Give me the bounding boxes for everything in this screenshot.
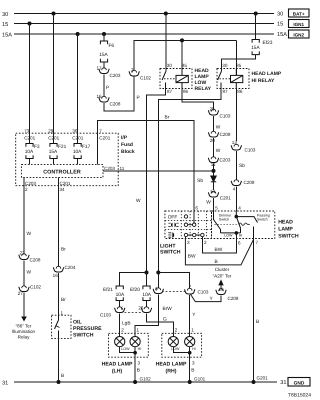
svg-text:HEAD LAMP: HEAD LAMP — [252, 71, 282, 77]
wire RH lamp commons — [173, 347, 189, 353]
svg-text:85: 85 — [236, 63, 242, 68]
wire bus30 to fuse Ef23 — [255, 14, 257, 40]
svg-text:G201: G201 — [257, 376, 269, 381]
ground G201 — [252, 380, 256, 384]
light switch inner grid — [165, 211, 212, 239]
svg-text:LOW: LOW — [121, 347, 130, 351]
junction Sb node — [212, 169, 216, 173]
wire pin7 to ground G201 — [253, 239, 255, 383]
svg-text:CONTROLLER: CONTROLLER — [43, 169, 81, 175]
wire to Sb junction — [213, 164, 215, 171]
svg-text:“A20” Ter: “A20” Ter — [213, 274, 232, 279]
svg-text:C102: C102 — [30, 285, 41, 290]
light switch head row contacts — [186, 234, 202, 236]
svg-text:C208: C208 — [110, 102, 121, 107]
wire W segment — [213, 116, 215, 131]
svg-text:BrW: BrW — [163, 306, 173, 312]
junction RH lamp common — [188, 351, 192, 355]
wire hi relay 86 down — [235, 89, 237, 142]
svg-text:W: W — [216, 125, 221, 131]
wire F6 to C203 pin17 — [103, 62, 105, 69]
wire Sb to diode — [213, 171, 215, 176]
svg-text:3: 3 — [192, 361, 195, 366]
connector C103 pin25 — [208, 109, 218, 115]
dashed connector link C103 pin5-pin26 — [125, 312, 143, 314]
dimmer switch blade — [214, 211, 221, 233]
junction passing switch pin4 — [235, 215, 239, 219]
svg-text:2: 2 — [175, 327, 178, 332]
svg-text:C102: C102 — [140, 76, 151, 81]
svg-text:27: 27 — [18, 291, 24, 296]
svg-text:W: W — [27, 270, 32, 276]
light switch parking row contacts — [186, 224, 194, 226]
ground G101 — [188, 380, 192, 384]
svg-text:C201: C201 — [72, 135, 83, 140]
fuse F17 10A — [73, 144, 91, 159]
svg-text:OIL: OIL — [73, 320, 82, 326]
connector C203 pin11b — [208, 157, 218, 163]
svg-text:P: P — [106, 85, 109, 91]
light switch parking row icon — [168, 223, 178, 228]
svg-text:Block: Block — [121, 149, 135, 155]
wire F17 to controller — [77, 159, 79, 165]
wire G to RH lamp low — [147, 314, 174, 334]
connector C201 pin51 — [208, 191, 218, 197]
svg-text:11: 11 — [120, 166, 125, 171]
svg-text:T6B15024: T6B15024 — [288, 393, 311, 399]
svg-text:C201: C201 — [99, 135, 110, 140]
svg-text:29: 29 — [48, 128, 54, 133]
svg-text:30: 30 — [277, 12, 283, 18]
dashed connector link C103 pin6-pin7 — [162, 291, 186, 293]
junction bus15A to F17 — [76, 32, 80, 36]
wire bus30 to fuse F21 — [53, 14, 55, 144]
svg-text:G: G — [163, 316, 167, 322]
svg-text:C203: C203 — [220, 158, 231, 163]
svg-text:C208: C208 — [228, 296, 239, 301]
connector C208 pin19 — [216, 289, 226, 295]
oil pressure switch contact — [55, 315, 60, 338]
svg-text:15A: 15A — [2, 33, 12, 39]
ground junction oil switch — [57, 380, 61, 384]
svg-text:6: 6 — [195, 206, 198, 211]
junction bus15 to F3 — [28, 22, 32, 26]
svg-text:1: 1 — [137, 327, 140, 332]
junction bus30 to F21 — [52, 12, 56, 16]
svg-text:20: 20 — [210, 138, 216, 143]
svg-text:P: P — [137, 95, 140, 101]
wire Br to oil pressure switch — [58, 273, 60, 315]
wire BrW to LH lamp hi — [135, 295, 158, 334]
wire W to Ef21 — [120, 273, 147, 287]
wire BW loop pin2 to pin6 — [202, 239, 236, 253]
svg-text:IGN2: IGN2 — [293, 33, 304, 38]
wire hi feed to C103 pin6 — [157, 273, 159, 288]
svg-text:C208: C208 — [30, 258, 41, 263]
svg-text:C201: C201 — [24, 135, 35, 140]
svg-text:2: 2 — [121, 327, 124, 332]
svg-text:86: 86 — [183, 89, 189, 94]
svg-text:30: 30 — [167, 63, 173, 68]
svg-text:31: 31 — [2, 381, 8, 387]
terminal box BAT+ — [289, 9, 310, 17]
svg-text:SWITCH: SWITCH — [278, 233, 299, 239]
junction dimmer low to pin6 — [235, 231, 239, 235]
svg-text:BW: BW — [215, 247, 223, 253]
wire F21 to controller — [53, 159, 55, 165]
svg-text:F21: F21 — [58, 144, 67, 150]
svg-text:86: 86 — [237, 89, 243, 94]
svg-text:LgB: LgB — [122, 321, 131, 327]
svg-text:Br: Br — [165, 115, 170, 121]
svg-text:F6: F6 — [109, 43, 115, 49]
svg-text:Sb: Sb — [197, 178, 203, 184]
junction bus15A to F6 — [102, 32, 106, 36]
svg-text:“86” Ter: “86” Ter — [16, 324, 32, 329]
svg-text:B: B — [256, 319, 259, 325]
svg-text:3: 3 — [187, 240, 190, 245]
wire W controller pin2 down — [23, 177, 25, 253]
svg-text:4: 4 — [233, 187, 236, 192]
svg-text:F3: F3 — [34, 144, 40, 150]
terminal box IGN1 — [289, 20, 310, 28]
junction bus30 to Ef23 — [254, 12, 258, 16]
wire pin6 into switch — [193, 211, 195, 223]
svg-text:10A: 10A — [73, 149, 82, 155]
wire Br: I/P pin7 C201 to light switch pin6 — [98, 121, 195, 212]
svg-text:15: 15 — [277, 22, 283, 28]
svg-text:87: 87 — [167, 89, 173, 94]
svg-text:34: 34 — [60, 187, 66, 192]
connector C103 pin26 — [141, 307, 151, 313]
svg-text:W: W — [136, 198, 141, 204]
fuse F21 15A — [49, 144, 67, 159]
connector C208 pin22 — [19, 254, 29, 260]
fuse Ef21 10A — [103, 286, 125, 301]
svg-text:Fusd: Fusd — [121, 142, 133, 148]
svg-text:Ef20: Ef20 — [130, 287, 140, 293]
svg-text:HI: HI — [192, 347, 196, 351]
wire low relay 87 down (W) — [147, 87, 166, 273]
svg-text:HEAD LAMP: HEAD LAMP — [156, 362, 187, 368]
wire controller pin11 C203 to Sb node — [103, 170, 214, 172]
connector C103 pin5 — [115, 307, 125, 313]
connector C208 pin20 — [208, 131, 218, 137]
wire low relay 86 to C103 pin25 — [182, 89, 214, 110]
wire Y cluster branch — [190, 294, 221, 302]
svg-text:C203: C203 — [110, 73, 121, 78]
light switch box — [165, 211, 212, 239]
head lamp switch box — [212, 211, 275, 239]
svg-text:15A: 15A — [99, 52, 108, 58]
wire Br controller pin34 down — [58, 177, 60, 266]
svg-text:I/P: I/P — [121, 135, 128, 141]
svg-text:C203: C203 — [104, 166, 115, 171]
svg-text:C103: C103 — [220, 114, 231, 119]
svg-text:5: 5 — [215, 206, 218, 211]
wire diode to C201 pin51 — [213, 182, 215, 190]
wire contact to pin2 stub — [201, 237, 203, 239]
junction LH lamp common — [133, 351, 137, 355]
svg-text:85: 85 — [182, 63, 188, 68]
svg-text:OFF: OFF — [168, 215, 178, 221]
wire Y to RH lamp hi — [189, 295, 191, 333]
wire to low relay pin85 — [181, 40, 183, 75]
off-page arrow to cluster A20 — [218, 279, 223, 285]
light switch contact OFF — [184, 215, 187, 218]
svg-text:C203: C203 — [25, 181, 36, 186]
connector C102 pin27 — [19, 286, 29, 292]
ground G102 — [133, 380, 137, 384]
off-page arrow to 86 Ter illumination relay — [21, 317, 27, 322]
wire LH hi lamp bottom — [134, 347, 136, 353]
svg-text:LOW: LOW — [224, 234, 233, 238]
wire to illumination relay arrow — [23, 293, 25, 317]
svg-text:2: 2 — [25, 187, 28, 192]
wire arrow to C208 pin19 — [220, 285, 222, 288]
svg-text:HEAD: HEAD — [278, 219, 293, 225]
relay K1 head lamp low relay — [160, 69, 192, 89]
lamp LH low beam — [115, 337, 125, 347]
svg-text:1: 1 — [191, 327, 194, 332]
svg-text:7: 7 — [99, 128, 102, 133]
wire RH ground B — [189, 353, 191, 382]
fuse F3 10A — [25, 144, 40, 159]
connector C204 pin16 — [53, 266, 63, 272]
relay K2 head lamp hi relay — [217, 69, 249, 89]
svg-text:87: 87 — [223, 89, 229, 94]
svg-text:16: 16 — [53, 273, 59, 278]
fuse F6 15A — [99, 41, 114, 62]
wire F3 to controller — [29, 159, 31, 165]
wire LH lamp commons — [120, 347, 135, 353]
svg-text:BAT+: BAT+ — [293, 12, 305, 17]
terminal box GND — [288, 378, 310, 387]
svg-text:36: 36 — [72, 128, 78, 133]
lamp LH hi beam — [130, 337, 140, 347]
svg-text:Br: Br — [61, 247, 66, 253]
wire Ef23 to hi relay pin30 — [221, 55, 255, 72]
svg-text:B: B — [61, 373, 64, 379]
svg-text:HEAD LAMP: HEAD LAMP — [102, 362, 133, 368]
junction coil feed to low relay 85 — [180, 38, 184, 42]
svg-text:HI: HI — [138, 347, 142, 351]
svg-text:Switch: Switch — [257, 218, 268, 222]
wire RH hi lamp bottom — [189, 347, 191, 353]
svg-text:B: B — [137, 368, 140, 374]
wire bus30 to low relay pin30 — [165, 14, 167, 72]
lamp RH hi beam — [185, 337, 195, 347]
svg-text:7: 7 — [256, 240, 259, 245]
wire LH hi lamp top — [134, 333, 136, 336]
diode D1 — [211, 176, 216, 182]
connector C102 pin2 — [129, 70, 139, 76]
connector C208 pin16 — [99, 96, 109, 102]
terminal box IGN2 — [289, 30, 310, 38]
wire LgB to LH lamp low — [119, 314, 121, 334]
svg-text:HI RELAY: HI RELAY — [252, 78, 276, 84]
lamp RH low beam — [168, 337, 178, 347]
svg-text:15A: 15A — [277, 32, 287, 38]
connector C208 pin4 — [231, 180, 241, 186]
svg-text:C103: C103 — [245, 148, 256, 153]
svg-text:Ef21: Ef21 — [103, 287, 113, 293]
svg-text:SWITCH: SWITCH — [73, 333, 94, 339]
wire W segment chain — [23, 261, 25, 286]
wire bus 15A IGN2 — [14, 33, 274, 35]
wire bus15A to fuse F17 — [77, 34, 79, 144]
wire LH low lamp top — [119, 333, 121, 336]
wire oil switch to ground — [58, 338, 60, 382]
wire LH ground B — [134, 353, 136, 382]
wire W segment 2 — [213, 138, 215, 157]
svg-text:LAMP: LAMP — [278, 226, 293, 232]
svg-text:C201: C201 — [60, 181, 71, 186]
I/P fuse block — [16, 133, 119, 186]
wire hi feed to C103 pin7 — [158, 273, 189, 289]
svg-text:Switch: Switch — [219, 218, 230, 222]
fuse Ef20 10A — [130, 286, 152, 301]
svg-text:16: 16 — [97, 94, 103, 99]
svg-text:73: 73 — [24, 128, 30, 133]
svg-text:15A: 15A — [49, 149, 58, 155]
passing switch — [236, 211, 257, 239]
svg-text:W: W — [27, 231, 32, 237]
svg-text:6: 6 — [238, 241, 241, 246]
wire pin3 BW to pin7 B — [185, 239, 253, 265]
svg-text:Cluster: Cluster — [215, 267, 230, 272]
wire bus15 to fuse F3 — [29, 24, 31, 144]
svg-text:PRESSURE: PRESSURE — [73, 326, 102, 332]
svg-text:(RH): (RH) — [166, 369, 177, 375]
svg-text:Illumination: Illumination — [12, 329, 36, 334]
svg-text:Br: Br — [61, 297, 66, 303]
wire RH low lamp top — [172, 333, 174, 336]
svg-text:B: B — [215, 259, 218, 265]
svg-text:(LH): (LH) — [112, 369, 123, 375]
wire to hi relay pin85 — [235, 40, 237, 75]
svg-text:W: W — [216, 148, 221, 154]
svg-text:C201: C201 — [48, 135, 59, 140]
wire to Ef20 — [146, 273, 148, 287]
wire Sb segment — [235, 151, 237, 180]
oil pressure switch box — [52, 315, 71, 338]
wire to headlamp switch pin4 — [235, 187, 237, 212]
svg-text:4: 4 — [238, 206, 241, 211]
svg-text:GND: GND — [294, 380, 305, 386]
wire P segment 1 — [103, 75, 105, 97]
svg-text:C103: C103 — [100, 313, 111, 318]
svg-text:Sb: Sb — [239, 163, 245, 169]
wire Ef21 to C103 pin5 — [119, 301, 121, 307]
svg-text:10A: 10A — [25, 149, 34, 155]
fuse Ef23 15A — [251, 40, 273, 55]
svg-text:G102: G102 — [140, 377, 152, 382]
svg-text:F17: F17 — [82, 144, 91, 150]
wire C208 pin16 to C102 pin2 — [104, 77, 134, 112]
svg-text:10A: 10A — [142, 292, 151, 298]
light switch head row icon — [168, 232, 174, 238]
svg-text:C208: C208 — [220, 132, 231, 137]
svg-text:2: 2 — [204, 240, 207, 245]
wire hi relay 87 down — [158, 87, 221, 273]
svg-text:HI: HI — [239, 234, 243, 238]
wire Ef20 to pin26 — [146, 301, 148, 307]
controller — [21, 164, 103, 177]
svg-text:15A: 15A — [251, 45, 260, 51]
svg-text:3: 3 — [138, 361, 141, 366]
connector C103 pin13 — [231, 144, 241, 150]
dimmer LOW contact line — [221, 228, 241, 233]
wire contact to pin3 stub — [184, 237, 186, 239]
junction hi feed split — [156, 271, 160, 275]
connector C103 pin6 — [153, 288, 163, 294]
junction W feed to Ef21/Ef20 — [145, 271, 149, 275]
svg-text:31: 31 — [280, 380, 286, 386]
svg-text:Ef23: Ef23 — [263, 40, 273, 46]
svg-text:W: W — [206, 199, 211, 205]
svg-text:BW: BW — [188, 254, 196, 260]
svg-text:30: 30 — [222, 63, 228, 68]
svg-text:30: 30 — [2, 12, 8, 18]
wire W to dimmer pin5 — [213, 198, 215, 211]
svg-text:LOW: LOW — [171, 347, 180, 351]
wire bus 30 BAT+ — [14, 13, 274, 15]
connector C203 pin17 — [99, 68, 109, 74]
svg-text:C204: C204 — [65, 265, 76, 270]
head lamp RH box — [162, 333, 202, 357]
head lamp LH box — [109, 333, 149, 357]
connector C103 pin7 — [185, 288, 195, 294]
wire dimmer low to pin6 stub — [235, 233, 237, 239]
junction bus30 to low relay 30 — [164, 12, 168, 16]
svg-text:C201: C201 — [220, 196, 231, 201]
wire ground bus 31 — [14, 381, 277, 383]
svg-text:SWITCH: SWITCH — [160, 249, 181, 255]
svg-text:15: 15 — [2, 22, 8, 28]
wire bus 15 IGN1 — [14, 23, 274, 25]
dimmer-passing mechanical link — [215, 223, 241, 225]
svg-text:RELAY: RELAY — [195, 86, 212, 92]
svg-text:C208: C208 — [244, 180, 255, 185]
svg-text:B: B — [191, 368, 194, 374]
wire RH hi lamp top — [189, 333, 191, 336]
svg-text:Relay: Relay — [18, 335, 30, 340]
svg-text:G101: G101 — [194, 377, 206, 382]
wire coil feed rail — [134, 40, 236, 70]
svg-text:IGN1: IGN1 — [293, 22, 304, 27]
svg-text:C103: C103 — [198, 290, 209, 295]
wire bus15A to fuse F6 — [103, 34, 105, 41]
svg-text:10A: 10A — [116, 292, 125, 298]
